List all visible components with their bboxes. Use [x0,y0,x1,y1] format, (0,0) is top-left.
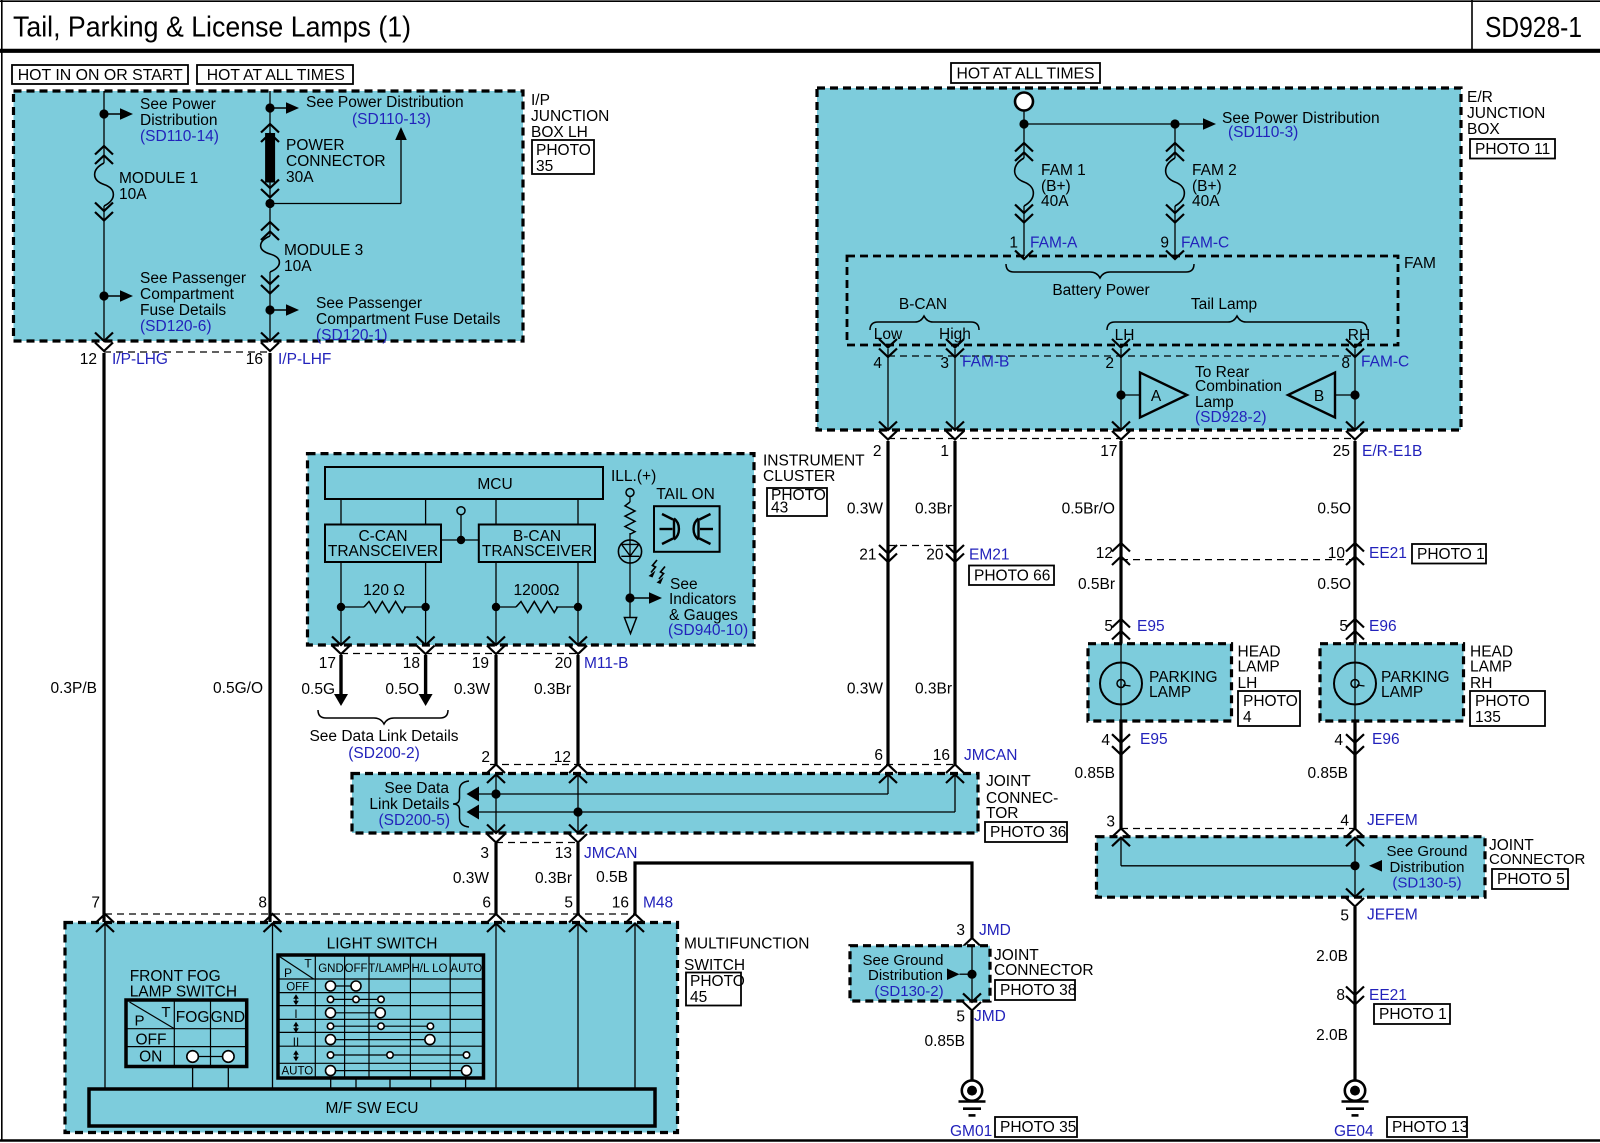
svg-text:10A: 10A [284,258,312,275]
svg-text:45: 45 [690,989,707,1006]
svg-text:19: 19 [472,655,489,672]
svg-text:8: 8 [258,895,267,912]
svg-text:8: 8 [1336,987,1345,1004]
svg-text:CLUSTER: CLUSTER [763,468,835,485]
svg-text:EE21: EE21 [1369,545,1407,562]
svg-text:FAM 1: FAM 1 [1041,162,1086,179]
svg-text:LAMP: LAMP [1381,684,1423,701]
svg-text:A: A [1151,388,1162,405]
svg-text:(SD110-14): (SD110-14) [140,128,219,145]
svg-text:TRANSCEIVER: TRANSCEIVER [328,543,438,560]
svg-text:1200Ω: 1200Ω [513,582,559,599]
svg-text:MODULE 3: MODULE 3 [284,242,363,259]
svg-text:Battery Power: Battery Power [1052,282,1149,299]
svg-text:2: 2 [873,443,882,460]
svg-text:(SD130-2): (SD130-2) [874,983,943,1000]
svg-text:Compartment: Compartment [140,286,235,303]
svg-text:16: 16 [246,351,263,368]
svg-text:0.85B: 0.85B [1074,765,1115,782]
svg-text:See Power: See Power [140,96,216,113]
svg-text:Distribution: Distribution [140,112,218,129]
svg-text:P: P [134,1013,144,1030]
svg-text:CONNECTOR: CONNECTOR [994,962,1094,979]
svg-text:13: 13 [555,845,572,862]
svg-text:RH: RH [1348,327,1370,344]
svg-text:1: 1 [1009,235,1018,252]
svg-text:17: 17 [319,655,336,672]
svg-text:0.3W: 0.3W [847,681,884,698]
svg-text:JMD: JMD [979,922,1011,939]
svg-text:I/P-LHG: I/P-LHG [112,351,168,368]
svg-text:0.3Br: 0.3Br [535,870,572,887]
svg-text:(SD928-2): (SD928-2) [1195,409,1267,426]
svg-text:5: 5 [956,1009,965,1026]
svg-text:25: 25 [1333,443,1350,460]
svg-text:2.0B: 2.0B [1316,948,1348,965]
svg-text:E/R: E/R [1467,89,1493,106]
svg-text:10: 10 [1328,545,1346,562]
svg-text:OFF: OFF [345,963,368,975]
svg-text:Combination: Combination [1195,378,1282,395]
svg-text:Link Details: Link Details [369,796,449,813]
svg-text:HOT IN ON OR START: HOT IN ON OR START [18,67,183,84]
svg-text:PHOTO: PHOTO [1475,693,1530,710]
svg-text:12: 12 [80,351,97,368]
svg-text:FAM-A: FAM-A [1030,235,1078,252]
svg-text:0.3Br: 0.3Br [915,501,952,518]
svg-text:21: 21 [859,547,876,564]
svg-text:30A: 30A [286,169,314,186]
svg-text:LAMP: LAMP [1149,684,1191,701]
svg-text:LAMP: LAMP [1238,659,1280,676]
svg-text:2: 2 [481,749,490,766]
svg-text:(SD130-5): (SD130-5) [1392,875,1461,892]
svg-text:FAM 2: FAM 2 [1192,162,1237,179]
svg-text:Tail Lamp: Tail Lamp [1191,296,1257,313]
svg-text:4: 4 [873,355,882,372]
svg-text:0.5Br: 0.5Br [1078,576,1115,593]
svg-text:See Passenger: See Passenger [140,270,246,287]
svg-text:AUTO: AUTO [282,1066,314,1078]
svg-text:0.3Br: 0.3Br [534,681,571,698]
svg-text:AUTO: AUTO [450,963,482,975]
svg-text:INSTRUMENT: INSTRUMENT [763,453,865,470]
svg-text:9: 9 [1160,235,1169,252]
svg-text:B-CAN: B-CAN [899,296,947,313]
svg-text:0.3W: 0.3W [453,870,490,887]
svg-text:See Power Distribution: See Power Distribution [306,94,464,111]
svg-text:GND: GND [211,1009,245,1026]
svg-text:(SD200-2): (SD200-2) [348,745,420,762]
svg-text:16: 16 [612,895,629,912]
svg-text:3: 3 [1106,814,1115,831]
svg-text:Distribution: Distribution [868,967,943,984]
svg-text:0.5O: 0.5O [385,681,419,698]
svg-text:40A: 40A [1192,193,1220,210]
svg-text:PHOTO 5: PHOTO 5 [1497,871,1565,888]
svg-text:0.5O: 0.5O [1317,501,1351,518]
svg-text:JUNCTION: JUNCTION [531,108,609,125]
svg-text:LIGHT SWITCH: LIGHT SWITCH [327,936,438,953]
svg-text:40A: 40A [1041,193,1069,210]
svg-text:JMD: JMD [974,1008,1006,1025]
svg-text:0.3P/B: 0.3P/B [50,680,97,697]
svg-text:T/LAMP: T/LAMP [368,963,410,975]
svg-text:PHOTO: PHOTO [690,973,745,990]
svg-text:LAMP: LAMP [1470,659,1512,676]
svg-text:12: 12 [554,749,571,766]
svg-text:HOT AT ALL TIMES: HOT AT ALL TIMES [957,66,1095,83]
svg-text:MULTIFUNCTION: MULTIFUNCTION [684,936,809,953]
svg-text:Fuse Details: Fuse Details [140,302,226,319]
svg-text:SD928-1: SD928-1 [1485,12,1582,44]
svg-text:JUNCTION: JUNCTION [1467,105,1545,122]
svg-text:5: 5 [1339,618,1348,635]
svg-text:8: 8 [1341,355,1350,372]
svg-text:0.3Br: 0.3Br [915,681,952,698]
svg-text:MCU: MCU [477,476,512,493]
svg-text:FAM: FAM [1404,255,1436,272]
svg-text:2.0B: 2.0B [1316,1027,1348,1044]
svg-text:M48: M48 [643,895,673,912]
svg-text:JEFEM: JEFEM [1367,907,1418,924]
svg-text:0.5G/O: 0.5G/O [213,680,263,697]
svg-text:II: II [293,1037,299,1049]
svg-text:BOX LH: BOX LH [531,124,588,141]
svg-text:Distribution: Distribution [1389,859,1464,876]
svg-text:GND: GND [318,963,344,975]
svg-text:(SD120-1): (SD120-1) [316,327,388,344]
svg-text:4: 4 [1243,709,1252,726]
svg-text:E96: E96 [1369,618,1397,635]
svg-text:JEFEM: JEFEM [1367,812,1418,829]
svg-text:EM21: EM21 [969,547,1010,564]
svg-text:Tail, Parking & License Lamps: Tail, Parking & License Lamps (1) [13,12,411,44]
svg-text:0.5B: 0.5B [596,869,628,886]
svg-text:OFF: OFF [286,982,309,994]
svg-text:See Data: See Data [384,780,449,797]
svg-text:(SD120-6): (SD120-6) [140,318,212,335]
svg-text:12: 12 [1096,545,1113,562]
svg-text:6: 6 [482,895,491,912]
svg-text:2: 2 [1105,355,1114,372]
svg-text:H/L LO: H/L LO [411,963,447,975]
svg-text:CONNECTOR: CONNECTOR [286,153,386,170]
svg-text:FAM-B: FAM-B [962,354,1009,371]
svg-text:Indicators: Indicators [669,591,736,608]
svg-text:18: 18 [403,655,420,672]
svg-text:LAMP SWITCH: LAMP SWITCH [130,984,237,1001]
svg-text:1: 1 [940,443,949,460]
svg-text:CONNECTOR: CONNECTOR [1489,851,1586,868]
svg-text:135: 135 [1475,709,1501,726]
svg-text:I: I [294,1009,297,1021]
svg-text:0.85B: 0.85B [924,1033,965,1050]
svg-text:RH: RH [1470,675,1492,692]
svg-text:Compartment Fuse Details: Compartment Fuse Details [316,311,501,328]
svg-text:ON: ON [139,1049,162,1066]
svg-text:JMCAN: JMCAN [584,845,637,862]
svg-text:TOR: TOR [986,805,1018,822]
svg-text:0.5Br/O: 0.5Br/O [1062,501,1115,518]
svg-text:5: 5 [1104,618,1113,635]
svg-text:TRANSCEIVER: TRANSCEIVER [482,543,592,560]
svg-text:MODULE 1: MODULE 1 [119,170,198,187]
svg-text:(SD110-3): (SD110-3) [1228,124,1298,141]
svg-text:T: T [304,957,312,971]
svg-text:(SD200-5): (SD200-5) [379,812,451,829]
svg-text:35: 35 [536,158,553,175]
svg-text:EE21: EE21 [1369,987,1407,1004]
svg-text:(SD940-10): (SD940-10) [668,622,748,639]
svg-text:5: 5 [564,895,573,912]
svg-text:E95: E95 [1140,731,1168,748]
svg-text:M/F SW ECU: M/F SW ECU [326,1100,419,1117]
svg-text:3: 3 [956,922,965,939]
svg-text:PHOTO 1: PHOTO 1 [1417,546,1485,563]
svg-text:P: P [284,966,292,980]
svg-text:BOX: BOX [1467,121,1500,138]
svg-text:E/R-E1B: E/R-E1B [1362,443,1422,460]
svg-text:PHOTO 11: PHOTO 11 [1475,141,1550,158]
svg-text:GM01: GM01 [950,1123,992,1140]
svg-text:3: 3 [940,355,949,372]
svg-text:TAIL ON: TAIL ON [656,486,715,503]
svg-text:See Passenger: See Passenger [316,295,422,312]
svg-text:PHOTO: PHOTO [1243,693,1298,710]
svg-text:7: 7 [91,895,100,912]
svg-text:GE04: GE04 [1334,1123,1374,1140]
svg-text:HOT AT ALL TIMES: HOT AT ALL TIMES [207,67,345,84]
svg-text:4: 4 [1340,813,1349,830]
svg-text:4: 4 [1101,732,1110,749]
svg-text:0.5O: 0.5O [1317,576,1351,593]
svg-text:PHOTO: PHOTO [536,142,591,159]
svg-text:6: 6 [874,747,883,764]
svg-text:20: 20 [555,655,573,672]
svg-text:LH: LH [1238,675,1258,692]
svg-text:(SD110-13): (SD110-13) [352,111,431,128]
svg-text:PHOTO 38: PHOTO 38 [1000,982,1076,999]
svg-text:I/P-LHF: I/P-LHF [278,351,331,368]
svg-text:See Data Link Details: See Data Link Details [309,728,458,745]
svg-text:M11-B: M11-B [584,655,629,672]
svg-text:FRONT FOG: FRONT FOG [130,968,221,985]
svg-text:E96: E96 [1372,731,1400,748]
svg-text:See Ground: See Ground [1387,843,1468,860]
svg-text:5: 5 [1340,908,1349,925]
svg-text:JMCAN: JMCAN [964,747,1017,764]
svg-text:High: High [939,326,971,343]
svg-text:FAM-C: FAM-C [1181,235,1229,252]
svg-text:PHOTO 66: PHOTO 66 [974,568,1050,585]
svg-text:0.3W: 0.3W [454,681,491,698]
svg-text:SWITCH: SWITCH [684,957,745,974]
svg-text:I/P: I/P [531,92,550,109]
svg-text:POWER: POWER [286,137,345,154]
svg-text:PHOTO 13: PHOTO 13 [1392,1119,1468,1136]
svg-text:T: T [161,1004,170,1021]
svg-text:4: 4 [1334,732,1343,749]
svg-text:20: 20 [926,547,944,564]
svg-text:OFF: OFF [136,1032,167,1049]
svg-text:0.85B: 0.85B [1307,765,1348,782]
svg-text:PHOTO 1: PHOTO 1 [1379,1006,1447,1023]
svg-text:120 Ω: 120 Ω [363,582,405,599]
svg-text:10A: 10A [119,186,147,203]
svg-text:LH: LH [1115,327,1135,344]
svg-text:17: 17 [1100,443,1117,460]
svg-text:0.5G: 0.5G [301,681,335,698]
svg-text:PHOTO 35: PHOTO 35 [1000,1119,1076,1136]
svg-text:E95: E95 [1137,618,1165,635]
svg-text:Low: Low [874,326,903,343]
svg-text:43: 43 [771,500,788,517]
svg-text:JOINT: JOINT [986,773,1031,790]
svg-text:0.3W: 0.3W [847,501,884,518]
svg-text:ILL.(+): ILL.(+) [611,468,656,485]
svg-text:3: 3 [480,845,489,862]
svg-text:PHOTO 36: PHOTO 36 [990,824,1066,841]
svg-text:B: B [1314,388,1324,405]
svg-text:FOG: FOG [176,1009,210,1026]
svg-text:FAM-C: FAM-C [1361,354,1409,371]
svg-text:16: 16 [933,747,950,764]
